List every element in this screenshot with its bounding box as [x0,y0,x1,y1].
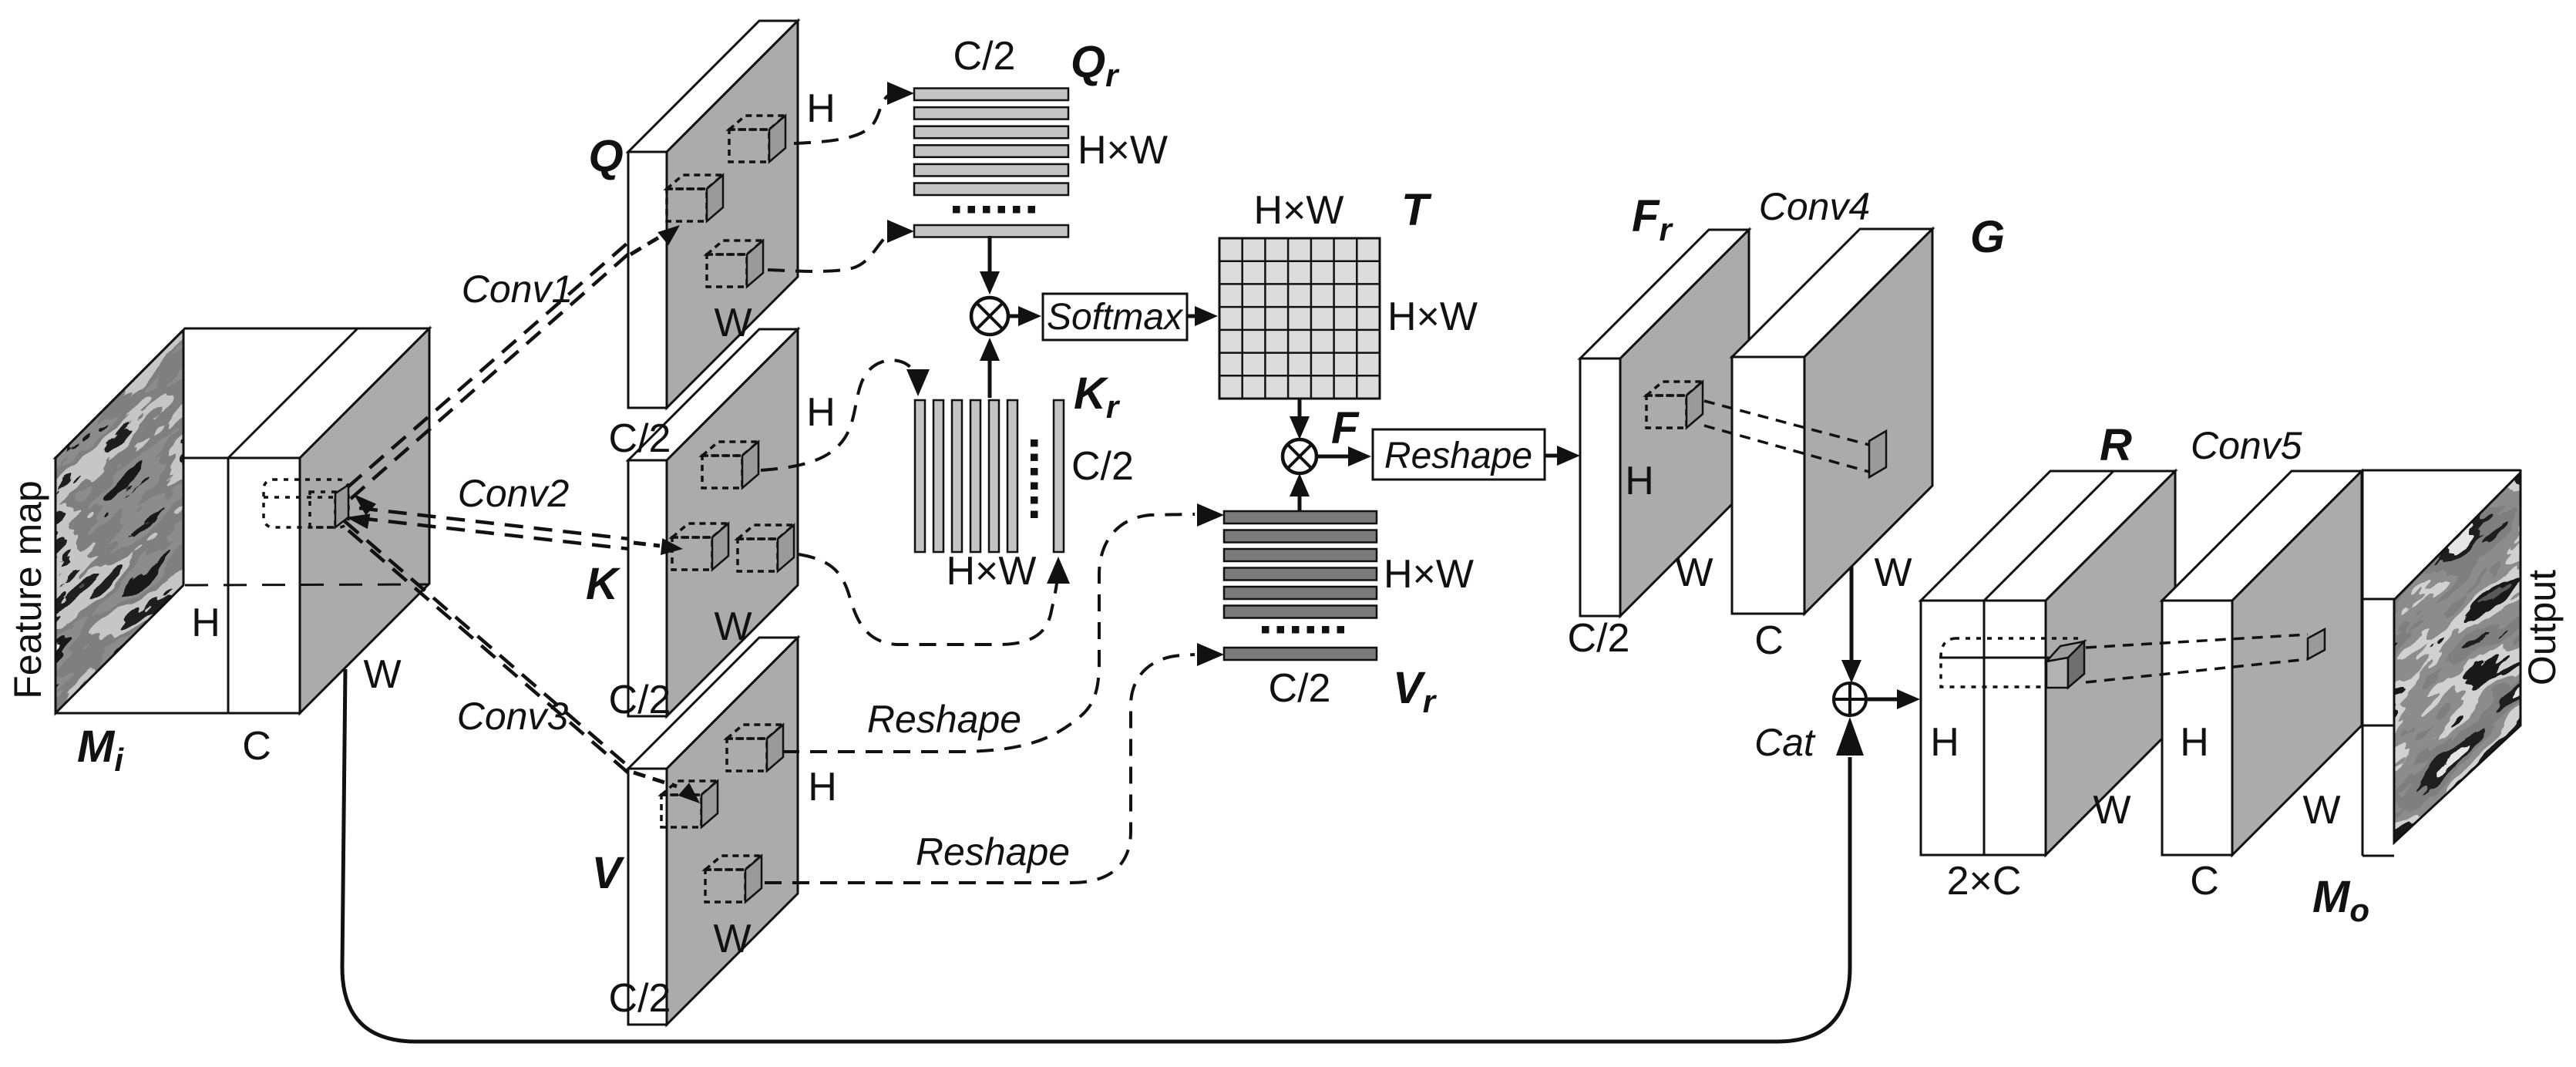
svg-text:C/2: C/2 [609,416,671,461]
svg-text:C/2: C/2 [1568,616,1630,661]
svg-text:Cat: Cat [1754,721,1816,764]
svg-text:K: K [586,559,621,609]
svg-text:V: V [592,848,625,898]
svg-text:C/2: C/2 [1269,666,1331,711]
svg-text:H×W: H×W [947,549,1037,594]
svg-text:C: C [2190,859,2219,904]
svg-text:Feature map: Feature map [6,480,49,698]
svg-text:H: H [2180,720,2209,765]
svg-text:C: C [1754,618,1784,663]
svg-text:W: W [714,301,752,345]
svg-text:Conv2: Conv2 [458,472,570,515]
svg-text:T: T [1401,185,1432,235]
svg-text:Softmax: Softmax [1047,297,1184,338]
svg-text:R: R [2100,420,2132,470]
svg-text:H×W: H×W [1254,188,1344,233]
svg-text:W: W [1874,550,1912,595]
svg-text:H×W: H×W [1387,295,1478,339]
svg-text:W: W [714,604,752,649]
svg-text:W: W [363,652,401,697]
svg-text:Reshape: Reshape [1384,436,1532,476]
svg-text:H: H [806,390,836,435]
svg-text:W: W [1675,550,1713,595]
svg-text:C: C [242,724,271,769]
svg-text:C/2: C/2 [1071,444,1134,489]
svg-text:H×W: H×W [1078,128,1168,173]
svg-text:C/2: C/2 [609,976,671,1021]
svg-text:W: W [2093,788,2130,833]
svg-text:H: H [191,601,220,645]
svg-text:Reshape: Reshape [916,830,1070,873]
svg-text:W: W [2302,788,2340,833]
svg-text:Reshape: Reshape [867,698,1021,741]
svg-text:Conv1: Conv1 [462,268,573,311]
svg-text:G: G [1970,212,2005,262]
svg-text:F: F [1331,403,1360,453]
svg-text:Conv4: Conv4 [1759,185,1871,228]
svg-text:H: H [806,86,836,131]
svg-text:Output: Output [2521,570,2564,685]
svg-text:H×W: H×W [1384,552,1474,597]
svg-text:Q: Q [588,131,623,181]
svg-text:W: W [713,917,751,961]
svg-text:Conv5: Conv5 [2191,424,2302,467]
svg-text:H: H [808,765,837,810]
svg-text:Conv3: Conv3 [457,695,569,738]
svg-text:C/2: C/2 [609,678,671,722]
svg-text:C/2: C/2 [953,34,1016,79]
svg-text:2×C: 2×C [1947,859,2022,904]
svg-text:H: H [1930,720,1959,765]
svg-text:H: H [1625,459,1654,503]
